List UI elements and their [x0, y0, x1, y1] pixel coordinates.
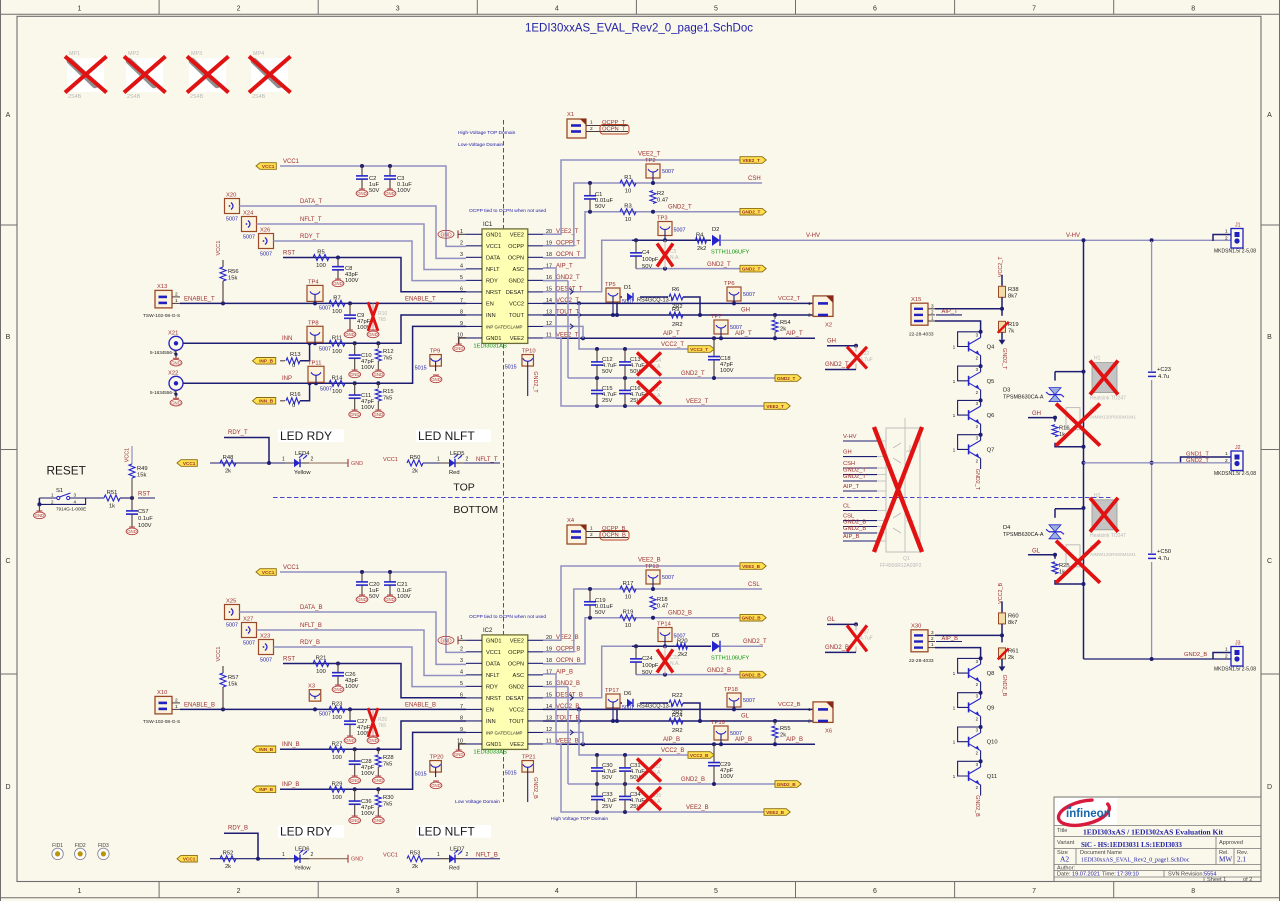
- svg-text:GND: GND: [374, 818, 384, 823]
- svg-text:2: 2: [466, 457, 469, 463]
- svg-text:5-1634556-2: 5-1634556-2: [150, 390, 176, 395]
- resistor R49: [129, 446, 148, 498]
- wire NFLT_B: [257, 630, 467, 676]
- wire pin12 T: [543, 326, 583, 338]
- test point TP19: [711, 720, 742, 744]
- svg-text:B: B: [6, 334, 11, 341]
- svg-text:D2: D2: [712, 227, 719, 233]
- svg-text:R24: R24: [672, 713, 683, 719]
- wire RST T: [283, 256, 466, 292]
- resistor R20: [677, 639, 688, 658]
- transistor Q4: [953, 330, 996, 366]
- svg-text:VEE2_B: VEE2_B: [638, 558, 661, 564]
- svg-text:OCPN: OCPN: [508, 255, 524, 261]
- connector X20: [225, 193, 240, 223]
- svg-text:5007: 5007: [260, 252, 272, 258]
- resistor R25: [1052, 562, 1070, 576]
- net label GND2_B on sense row: [668, 611, 692, 617]
- svg-text:R61: R61: [1008, 648, 1019, 654]
- svg-text:GND2_T: GND2_T: [742, 210, 761, 215]
- svg-text:DATA: DATA: [486, 661, 500, 667]
- svg-text:Q4: Q4: [987, 345, 996, 351]
- svg-text:Low Voltage Domain: Low Voltage Domain: [455, 799, 500, 805]
- svg-text:J3: J3: [1235, 641, 1241, 647]
- svg-text:7914G-1-000E: 7914G-1-000E: [56, 507, 86, 512]
- big text LED RDY B: [278, 825, 344, 839]
- net label GND1_T at J2: [1186, 452, 1209, 458]
- svg-text:GND: GND: [35, 513, 45, 518]
- svg-text:V-HV: V-HV: [1066, 233, 1080, 239]
- svg-text:VCC1: VCC1: [216, 241, 222, 256]
- wire RDY_B: [274, 647, 467, 687]
- svg-text:GND2: GND2: [508, 684, 524, 690]
- svg-text:GND: GND: [350, 372, 360, 377]
- svg-text:X15: X15: [911, 297, 921, 303]
- svg-text:22-28-4033: 22-28-4033: [909, 658, 934, 664]
- svg-text:2S4B: 2S4B: [68, 94, 82, 100]
- connector X27: [242, 617, 257, 647]
- svg-text:1: 1: [953, 413, 956, 419]
- svg-text:100: 100: [332, 309, 342, 315]
- svg-text:GND: GND: [374, 372, 384, 377]
- net label NFLT_B at LED: [464, 853, 500, 859]
- svg-text:22-28-4033: 22-28-4033: [909, 331, 934, 337]
- wire ENABLE_B: [180, 707, 466, 711]
- connector X2: [808, 296, 833, 329]
- svg-text:NFLT_B: NFLT_B: [300, 623, 322, 629]
- svg-text:TP17: TP17: [605, 688, 619, 694]
- diode D2: [711, 227, 750, 256]
- svg-text:5: 5: [460, 275, 463, 281]
- svg-text:GND: GND: [357, 597, 367, 602]
- svg-text:DATA_B: DATA_B: [300, 605, 322, 611]
- power tag GND2_B bank: [775, 781, 801, 788]
- svg-text:MKDSN1.5/ 2-5,08: MKDSN1.5/ 2-5,08: [1214, 667, 1256, 673]
- svg-text:6: 6: [873, 888, 877, 895]
- power tag VEE2_B bank: [764, 809, 790, 816]
- svg-text:GND: GND: [350, 778, 360, 783]
- svg-text:VCC1: VCC1: [216, 647, 222, 662]
- svg-text:VEE2_T: VEE2_T: [766, 404, 784, 409]
- svg-text:CSH: CSH: [843, 461, 855, 467]
- svg-text:GND: GND: [368, 738, 378, 743]
- svg-text:TP3: TP3: [657, 216, 668, 222]
- wire VEE2_T: [543, 160, 750, 234]
- net label RDY_T at LED: [224, 430, 271, 465]
- svg-text:8k7: 8k7: [1008, 620, 1017, 626]
- svg-text:TPSMB630CA-A: TPSMB630CA-A: [1003, 532, 1044, 538]
- crossed-out power module Q1: [843, 418, 922, 569]
- svg-text:TP14: TP14: [657, 622, 672, 628]
- vertical VCC2 label at R60: [998, 583, 1004, 604]
- power tag GND2_B (sense): [740, 614, 766, 621]
- net label VCC2_B at X2: [778, 702, 801, 708]
- test point TP4: [307, 279, 331, 311]
- wire VEE2_B: [543, 566, 750, 640]
- svg-text:100V: 100V: [720, 368, 734, 374]
- net label ENABLE_B (mid): [405, 702, 436, 708]
- net label INN_B: [282, 742, 300, 748]
- svg-text:RESET: RESET: [47, 463, 86, 477]
- svg-text:AIP_T: AIP_T: [556, 263, 573, 269]
- svg-text:INP_B: INP_B: [259, 359, 273, 364]
- svg-text:GND2_T: GND2_T: [843, 474, 866, 480]
- svg-text:5007: 5007: [319, 711, 331, 717]
- switch S1: [39, 488, 104, 512]
- wire CSH row T: [588, 181, 762, 185]
- svg-text:R53: R53: [410, 851, 421, 857]
- capacitor C50: [1148, 549, 1171, 562]
- net label OCPN_T (masked) at X1: [598, 125, 629, 135]
- connector X30: [909, 623, 935, 664]
- svg-text:VCC1: VCC1: [383, 853, 398, 859]
- svg-text:GND2_T: GND2_T: [1001, 348, 1007, 370]
- svg-text:1k: 1k: [109, 504, 115, 510]
- net label AIP at X15: [936, 309, 962, 315]
- capacitor C31: [619, 755, 645, 784]
- svg-text:LED NLFT: LED NLFT: [418, 429, 475, 443]
- svg-text:5554: 5554: [1204, 872, 1216, 878]
- connector J1: [1213, 223, 1256, 255]
- power tag VCC1 at LED RDY B: [177, 855, 197, 862]
- power tag INP_B: [253, 786, 276, 793]
- svg-text:ENABLE_T: ENABLE_T: [405, 296, 436, 302]
- svg-text:1: 1: [1225, 451, 1228, 457]
- resistor R6: [640, 287, 691, 310]
- net label ENABLE_T (left): [184, 296, 215, 302]
- svg-text:OCPP: OCPP: [508, 244, 524, 250]
- connector X23: [259, 634, 274, 664]
- wire CSH row B: [588, 587, 762, 591]
- svg-text:LED6: LED6: [295, 847, 310, 853]
- test point TP20: [415, 755, 444, 789]
- svg-text:GND: GND: [440, 638, 452, 644]
- svg-text:50V: 50V: [595, 204, 605, 210]
- net label RST at switch: [138, 492, 155, 499]
- svg-text:AIP_B: AIP_B: [942, 636, 959, 642]
- svg-text:B: B: [1267, 334, 1272, 341]
- svg-text:LED NLFT: LED NLFT: [418, 825, 475, 839]
- svg-text:VCC1: VCC1: [262, 164, 275, 169]
- wire OCPN_T to R3 row: [543, 212, 590, 258]
- crossed-out capacitor C35: [637, 787, 662, 810]
- svg-text:A2: A2: [1060, 855, 1069, 864]
- svg-text:R30: R30: [383, 795, 394, 801]
- svg-text:RDY_B: RDY_B: [228, 826, 248, 832]
- resistor R21: [313, 656, 329, 676]
- svg-text:VCC1: VCC1: [283, 565, 300, 571]
- svg-text:VEE2: VEE2: [510, 232, 524, 238]
- crossed-out capacitor C5: [657, 240, 680, 268]
- net label VCC2_T at X2: [778, 296, 801, 302]
- IC IC2 gate driver: [457, 628, 583, 756]
- svg-text:R18: R18: [657, 597, 668, 603]
- svg-text:1: 1: [282, 852, 285, 858]
- net label GND2_T at crossed cap: [825, 362, 856, 370]
- svg-text:GND2_B: GND2_B: [843, 520, 866, 526]
- svg-text:CL: CL: [843, 504, 851, 510]
- svg-text:10: 10: [625, 623, 631, 629]
- title block rev 2.1: [1237, 856, 1246, 864]
- svg-text:VCC1: VCC1: [183, 461, 196, 466]
- svg-text:VEE2_B: VEE2_B: [766, 810, 785, 815]
- svg-text:GND: GND: [374, 412, 384, 417]
- svg-text:AIP_T: AIP_T: [942, 309, 959, 315]
- resistor R24: [669, 713, 683, 734]
- svg-text:TP9: TP9: [430, 349, 441, 355]
- svg-text:NFLT_B: NFLT_B: [476, 853, 498, 859]
- capacitor C33: [591, 784, 617, 812]
- svg-text:8k7: 8k7: [1008, 293, 1017, 299]
- svg-text:Red: Red: [449, 470, 460, 476]
- net label ENABLE_B (left): [184, 702, 215, 708]
- svg-text:50V: 50V: [595, 610, 605, 616]
- svg-text:2: 2: [237, 888, 241, 895]
- fiducial FID2: [75, 843, 86, 860]
- net label AIP at X30: [936, 636, 962, 642]
- svg-text:RST: RST: [138, 492, 150, 498]
- wire VCC2_B row: [543, 707, 813, 711]
- wire ENABLE_T: [180, 301, 466, 305]
- svg-text:GND2: GND2: [508, 278, 524, 284]
- svg-text:VCC2: VCC2: [509, 301, 524, 307]
- svg-text:Q1: Q1: [903, 556, 910, 562]
- svg-text:5007: 5007: [662, 169, 674, 175]
- ground arrow at R61: [999, 666, 1006, 671]
- svg-text:GND1: GND1: [486, 638, 502, 644]
- net label AIP_T c: [786, 331, 803, 337]
- crossed-out capacitor C17: [637, 381, 662, 404]
- svg-text:Q5: Q5: [987, 379, 995, 385]
- svg-text:R54: R54: [780, 320, 791, 326]
- net label VEE2_B bank: [686, 805, 709, 811]
- svg-text:R20: R20: [677, 639, 688, 645]
- capacitor C8: [332, 258, 359, 287]
- svg-text:100: 100: [332, 349, 342, 355]
- svg-text:7: 7: [1032, 6, 1036, 13]
- power tag INN_B (top half): [253, 398, 276, 405]
- svg-text:GND2_B: GND2_B: [681, 777, 705, 783]
- big text LED NLFT B: [416, 825, 491, 839]
- resistor R19: [620, 610, 636, 630]
- svg-text:15k: 15k: [137, 473, 146, 479]
- svg-text:19.07.2021: 19.07.2021: [1072, 872, 1100, 878]
- svg-text:Yellow: Yellow: [294, 470, 311, 476]
- resistor R30: [372, 789, 393, 823]
- svg-text:7: 7: [1032, 888, 1036, 895]
- svg-text:Heatsink TO247: Heatsink TO247: [1090, 396, 1126, 402]
- net label RST T: [283, 251, 295, 257]
- capacitor C34: [619, 784, 645, 812]
- svg-text:2: 2: [1225, 236, 1228, 242]
- wire TOUT_B: [543, 719, 813, 723]
- svg-text:1: 1: [437, 457, 440, 463]
- svg-text:GND2_T: GND2_T: [707, 262, 731, 268]
- svg-text:RDY_B: RDY_B: [300, 640, 320, 646]
- svg-text:D6: D6: [624, 691, 631, 697]
- svg-text:1: 1: [953, 740, 956, 746]
- wire GND2_B bank row: [543, 687, 785, 786]
- capacitor C2: [356, 166, 379, 197]
- svg-text:X26: X26: [260, 228, 270, 234]
- svg-text:2k: 2k: [412, 864, 418, 870]
- net label DATA_B: [300, 605, 322, 611]
- power tag INP_B (top half): [253, 358, 276, 365]
- svg-text:NFLT_T: NFLT_T: [300, 217, 322, 223]
- svg-text:GND: GND: [368, 332, 378, 337]
- svg-text:D5: D5: [712, 633, 719, 639]
- svg-text:R57: R57: [228, 675, 239, 681]
- svg-text:7k5: 7k5: [383, 762, 392, 768]
- svg-text:100V: 100V: [361, 365, 375, 371]
- svg-text:100V: 100V: [361, 771, 375, 777]
- svg-text:5007: 5007: [662, 575, 674, 581]
- svg-text:2: 2: [175, 697, 178, 703]
- svg-text:TP19: TP19: [711, 720, 725, 726]
- svg-text:X20: X20: [226, 193, 236, 199]
- ground at S1: [34, 498, 46, 519]
- svg-text:RDY: RDY: [486, 684, 498, 690]
- svg-text:8: 8: [460, 309, 463, 315]
- note High-Voltage TOP Domain (top): [458, 130, 516, 136]
- net label AIP_T a: [663, 331, 680, 337]
- svg-text:NFLT_T: NFLT_T: [476, 457, 498, 463]
- coax connector X22: [150, 370, 183, 406]
- svg-text:GND2_B: GND2_B: [742, 616, 762, 621]
- svg-text:VCC2_B: VCC2_B: [998, 583, 1004, 604]
- capacitor C19: [584, 589, 614, 618]
- transistor Q7: [953, 433, 995, 469]
- connector X26: [259, 228, 274, 258]
- net label GH: [741, 308, 750, 314]
- svg-text:R51: R51: [107, 490, 118, 496]
- net label VEE2_T row: [638, 152, 661, 158]
- svg-text:R23: R23: [332, 701, 343, 707]
- wire TVS branch D3: [1053, 372, 1084, 447]
- svg-text:1: 1: [282, 457, 285, 463]
- svg-text:GND2_B: GND2_B: [532, 777, 538, 799]
- svg-text:7k5: 7k5: [378, 723, 386, 729]
- ground at pin10 IC1: [453, 338, 466, 352]
- svg-text:Q11: Q11: [987, 774, 998, 780]
- crossed-out capacitor C14: [637, 353, 662, 376]
- svg-text:X1: X1: [567, 112, 574, 118]
- svg-text:OCPP tied to OCPN when not use: OCPP tied to OCPN when not used: [469, 614, 546, 620]
- svg-text:7k5: 7k5: [378, 317, 386, 323]
- wire DESAT gnd loop T: [636, 267, 745, 271]
- wire VCC1 rail T: [280, 164, 466, 246]
- crossed-out resistor R61: [998, 635, 1019, 666]
- svg-text:50V: 50V: [369, 594, 379, 600]
- resistor R57: [220, 666, 239, 709]
- svg-text:Yellow: Yellow: [294, 866, 311, 872]
- net label OCPN_B (masked) at X4: [598, 531, 629, 541]
- svg-text:Title: Title: [1057, 828, 1067, 834]
- svg-text:8: 8: [1191, 6, 1195, 13]
- svg-text:100V: 100V: [361, 405, 375, 411]
- capacitor C1: [584, 183, 614, 212]
- resistor R51: [104, 490, 134, 510]
- connector X13: [143, 284, 180, 319]
- vertical GND2 label at R19: [1001, 348, 1007, 370]
- wire RST B: [283, 662, 466, 698]
- svg-text:50V: 50V: [642, 264, 652, 270]
- svg-text:GND: GND: [350, 412, 360, 417]
- svg-text:GND: GND: [431, 377, 441, 382]
- vertical VCC1 label B: [216, 647, 222, 662]
- resistor R16: [1052, 425, 1070, 439]
- test point TP13: [645, 564, 674, 589]
- transistor Q8: [953, 656, 995, 692]
- svg-text:TP4: TP4: [308, 279, 319, 285]
- dashed vertical domain line: [503, 120, 505, 802]
- svg-text:NRST: NRST: [486, 290, 502, 296]
- svg-text:5007: 5007: [743, 292, 755, 298]
- svg-text:R19: R19: [623, 610, 634, 616]
- power tag VCC2_B: [688, 752, 714, 759]
- svg-text:2: 2: [466, 852, 469, 858]
- svg-text:1EDI3033AS: 1EDI3033AS: [473, 750, 507, 756]
- svg-text:INN: INN: [486, 313, 496, 319]
- crossed-out jumper MP4: [249, 51, 291, 100]
- svg-text:2k: 2k: [225, 864, 231, 870]
- crossed-out heatsink H2: [1090, 493, 1126, 539]
- svg-text:VCC1: VCC1: [283, 159, 300, 165]
- svg-text:X30: X30: [911, 623, 921, 629]
- svg-text:GND: GND: [357, 191, 367, 196]
- svg-text:2: 2: [931, 309, 934, 314]
- svg-text:R9: R9: [672, 307, 679, 313]
- svg-text:5007: 5007: [319, 305, 331, 311]
- svg-text:Variant: Variant: [1057, 840, 1075, 846]
- svg-text:R19: R19: [1008, 322, 1019, 328]
- net label INP_B: [282, 782, 299, 788]
- svg-text:VCC2_B: VCC2_B: [690, 753, 709, 758]
- svg-text:N.A.: N.A.: [670, 255, 680, 261]
- vertical VCC2 label at R38: [998, 256, 1004, 277]
- svg-text:R4: R4: [696, 233, 704, 239]
- resistor R22: [640, 693, 691, 716]
- capacitor C13: [619, 349, 645, 378]
- wire GND2_T bank row: [543, 281, 785, 380]
- svg-text:5015: 5015: [505, 770, 517, 776]
- svg-text:OCPP: OCPP: [508, 650, 524, 656]
- svg-text:VEE2_T: VEE2_T: [742, 158, 760, 163]
- resistor R13 (0R): [280, 343, 310, 369]
- capacitor C27: [344, 709, 371, 743]
- svg-text:INN_B: INN_B: [259, 747, 274, 752]
- svg-text:GND2_B: GND2_B: [1184, 652, 1207, 658]
- svg-text:R12: R12: [383, 349, 394, 355]
- red X over power module: [874, 427, 922, 552]
- wire AIP_T row: [556, 336, 815, 340]
- resistor R29: [329, 781, 345, 801]
- svg-text:AIP_T: AIP_T: [786, 331, 803, 337]
- note OCPP tied to OCPN T: [469, 208, 546, 214]
- svg-text:5007: 5007: [243, 641, 255, 647]
- wire DC-link cap string: [1150, 241, 1154, 661]
- svg-text:R16: R16: [290, 392, 301, 398]
- net label GH at crossed cap: [827, 338, 858, 348]
- capacitor C21: [384, 572, 412, 603]
- svg-text:1: 1: [437, 852, 440, 858]
- test point TP18: [724, 687, 755, 709]
- svg-text:AIP_B: AIP_B: [556, 669, 573, 675]
- svg-text:EN: EN: [486, 301, 494, 307]
- svg-text:3: 3: [931, 303, 934, 308]
- net label GND2_T on sense row: [668, 205, 692, 211]
- net label GND2_T bank: [681, 371, 705, 377]
